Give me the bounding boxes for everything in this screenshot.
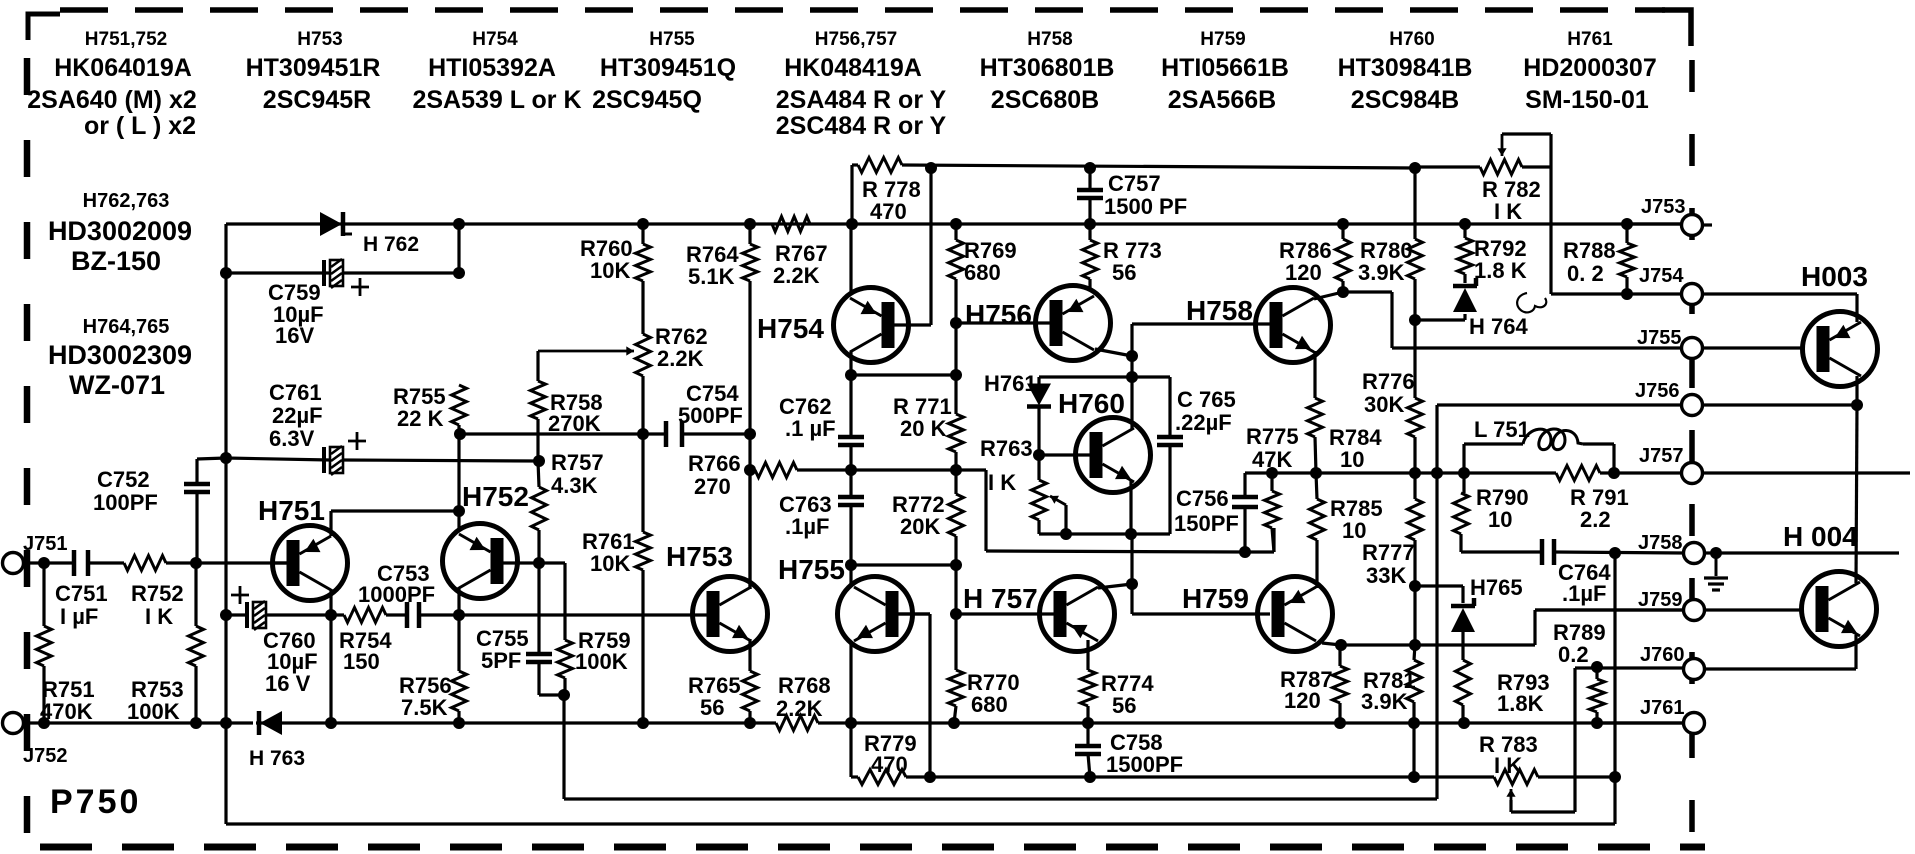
capacitor C751 1uF (72, 550, 77, 576)
transistor H760 (1076, 418, 1151, 493)
wire R758/R757 column (536, 419, 539, 461)
svg-text:H751: H751 (258, 495, 325, 526)
wire H751 emitter to H752 collector (y=511) (329, 511, 332, 536)
svg-text:20 K: 20 K (900, 416, 947, 441)
svg-text:H760: H760 (1389, 29, 1434, 50)
svg-text:R777: R777 (1362, 540, 1415, 565)
resistor R791 2.2 (1556, 466, 1600, 481)
svg-text:1.8K: 1.8K (1497, 691, 1544, 716)
svg-text:H 004: H 004 (1783, 521, 1858, 552)
svg-text:680: 680 (964, 260, 1001, 285)
wire R769 column (954, 224, 957, 240)
svg-text:HT306801B: HT306801B (980, 54, 1115, 82)
svg-text:HD3002009: HD3002009 (48, 216, 192, 246)
wire R751 column (42, 563, 45, 626)
wire H758 collector to J755 row (1343, 290, 1392, 293)
svg-text:H762,763: H762,763 (83, 190, 170, 212)
svg-text:2SA566B: 2SA566B (1168, 86, 1276, 114)
resistor R767 2.2K (772, 217, 810, 232)
capacitor C752 100PF (184, 482, 210, 487)
svg-text:I K: I K (1494, 199, 1522, 224)
svg-text:H752: H752 (462, 481, 529, 512)
svg-text:R788: R788 (1563, 238, 1616, 263)
resistor R777 33K (1408, 499, 1423, 540)
svg-text:J757: J757 (1639, 445, 1684, 467)
wire H765 branch from x=1415 (1415, 584, 1463, 587)
svg-text:150: 150 (343, 649, 380, 674)
svg-text:2SC945R: 2SC945R (263, 86, 371, 114)
svg-text:0. 2: 0. 2 (1567, 261, 1604, 286)
svg-text:5PF: 5PF (481, 648, 521, 673)
wire H758 collector to R786 bottom (1314, 292, 1343, 299)
resistor R793 1.8K (1456, 660, 1471, 705)
svg-text:H759: H759 (1182, 583, 1249, 614)
wire H753 collector/emitter column (748, 470, 751, 589)
resistor R768 2.2K (776, 716, 818, 731)
transistor H758 (1256, 288, 1331, 363)
svg-text:2.2K: 2.2K (776, 696, 823, 721)
wire H003 collector down / H004 collector up (x=1857) (1855, 376, 1858, 405)
svg-text:H753: H753 (666, 541, 733, 572)
svg-text:HT309841B: HT309841B (1338, 54, 1473, 82)
wire driver node down to y=552 row (984, 470, 987, 551)
svg-text:22 K: 22 K (397, 406, 444, 431)
svg-text:.1µF: .1µF (785, 514, 829, 539)
resistor R764 5.1K (743, 244, 758, 281)
wire J760 feedback to R783 wiper (1573, 668, 1576, 812)
resistor R773 56 (1083, 240, 1098, 279)
svg-text:H760: H760 (1058, 388, 1125, 419)
svg-text:2.2K: 2.2K (657, 346, 704, 371)
wire output return x=1615 (J758 to bottom) (1613, 553, 1616, 777)
svg-text:H 764: H 764 (1469, 314, 1528, 339)
svg-text:120: 120 (1284, 688, 1321, 713)
connector J751 (3, 553, 24, 574)
wire J756 row (1437, 403, 1683, 406)
zener diode H765 (1451, 604, 1475, 609)
svg-text:16V: 16V (275, 323, 314, 348)
wire C762/C763 column (849, 375, 852, 437)
wire R782 right vertical to J754 row (1549, 167, 1552, 294)
connector J753 (1682, 215, 1703, 236)
diode H763 (260, 711, 282, 735)
svg-text:.22µF: .22µF (1175, 410, 1232, 435)
resistor R759 100K (558, 640, 573, 678)
ground symbol at J758 (1715, 553, 1718, 576)
svg-text:100PF: 100PF (93, 490, 158, 515)
svg-text:7.5K: 7.5K (401, 695, 448, 720)
svg-text:H765: H765 (1470, 575, 1523, 600)
wire J756 row to H003 collector junction (1703, 403, 1857, 406)
wire C756 column (1243, 473, 1246, 497)
wire R759 jog and column (539, 561, 565, 564)
resistor R754 150 (344, 608, 386, 623)
wire feedback from C755/R759 bottom down and right (y=799) (562, 695, 565, 799)
capacitor C764 .1uF (1540, 539, 1545, 565)
wire R778 left lead vertical (850, 165, 853, 224)
wire H759 collector to J759 row (1322, 643, 1341, 645)
svg-text:H759: H759 (1200, 29, 1245, 50)
resistor R761 10K (636, 532, 651, 570)
wire R764 column (x=750) (748, 224, 751, 244)
wire R790 column (1462, 473, 1465, 493)
resistor R757 4.3K (532, 487, 547, 530)
wire H755 collector row to R772 bottom (851, 563, 956, 566)
board outline corner top-left (28, 14, 60, 40)
wire H754 collector to C762 and R771 junction row (849, 351, 852, 375)
svg-text:H755: H755 (778, 554, 845, 585)
svg-text:J761: J761 (1640, 697, 1685, 719)
diode H762 (320, 212, 342, 236)
wire H756 base lead (956, 321, 1052, 324)
svg-text:100K: 100K (575, 649, 628, 674)
capacitor C762 .1uF (838, 435, 864, 440)
resistor R790 10 (1454, 493, 1469, 534)
resistor R751 470K (37, 626, 52, 666)
connector J760 (1684, 659, 1705, 680)
svg-text:HT309451R: HT309451R (246, 54, 381, 82)
svg-text:I µF: I µF (60, 604, 98, 629)
wire H752 base lead (503, 561, 539, 564)
wire H765/R793 column (1461, 629, 1464, 660)
svg-text:56: 56 (1112, 693, 1136, 718)
wire R789 column (1595, 667, 1598, 679)
rheostat R783 1K (1494, 770, 1538, 785)
svg-text:10K: 10K (590, 258, 630, 283)
svg-text:H754: H754 (757, 313, 824, 344)
svg-text:2SC484 R or Y: 2SC484 R or Y (776, 112, 947, 140)
svg-text:120: 120 (1285, 260, 1322, 285)
svg-text:H753: H753 (297, 29, 342, 50)
wire H759 emitter through R785 to output node (1315, 540, 1318, 588)
svg-text:680: 680 (971, 692, 1008, 717)
svg-text:P750: P750 (50, 783, 141, 821)
resistor R758 270K (531, 381, 546, 419)
svg-text:HD2000307: HD2000307 (1523, 54, 1656, 82)
svg-text:H 762: H 762 (363, 233, 419, 256)
capacitor C761 22uF 6.3V (electrolytic) (322, 447, 326, 473)
transistor H757 (1040, 577, 1115, 652)
wire R792/H764 column (1463, 224, 1466, 238)
svg-text:10: 10 (1340, 447, 1364, 472)
wire H756 collector to x=1132 column (1095, 349, 1132, 356)
svg-text:2SC984B: 2SC984B (1351, 86, 1459, 114)
svg-text:H751,752: H751,752 (85, 29, 167, 50)
resistor R786 120 (1336, 239, 1351, 281)
svg-text:C756: C756 (1176, 486, 1229, 511)
svg-text:HK048419A: HK048419A (784, 54, 922, 82)
resistor R774 56 (1081, 670, 1096, 706)
capacitor C756 150PF (1232, 495, 1258, 500)
transistor H759 (1258, 577, 1333, 652)
svg-text:J751: J751 (23, 533, 68, 555)
svg-text:33K: 33K (1366, 563, 1406, 588)
svg-text:6.3V: 6.3V (269, 426, 315, 451)
connector J761 (1684, 713, 1705, 734)
wire R758 top bend to R762 wiper (536, 351, 539, 381)
svg-text:2SC945Q: 2SC945Q (592, 86, 702, 114)
wire J751 input row (22, 561, 74, 564)
resistor R765 56 (743, 671, 758, 711)
capacitor C760 10uF 16V (electrolytic) (245, 602, 249, 628)
wire R766 row y=470 (750, 468, 755, 471)
svg-text:C 765: C 765 (1177, 387, 1236, 412)
svg-text:2SA640 (M) x2: 2SA640 (M) x2 (27, 86, 197, 114)
diode H761 (1027, 384, 1051, 406)
wire C752 column (195, 459, 198, 484)
wire R753 column (194, 563, 197, 626)
wire supply rail 2 (226, 222, 1683, 225)
svg-text:C761: C761 (269, 380, 322, 405)
connector J756 (1682, 395, 1703, 416)
svg-text:J756: J756 (1635, 380, 1680, 402)
wire H760 emitter to y=534 row (1129, 481, 1132, 534)
board outline P750 dashed border top (60, 7, 1665, 13)
board outline P750 dashed border right (1689, 60, 1695, 842)
svg-text:H756: H756 (965, 299, 1032, 330)
node x459 column R755 bottom to H752 collector (457, 425, 460, 530)
svg-text:I K: I K (145, 604, 173, 629)
svg-text:2SC680B: 2SC680B (991, 86, 1099, 114)
wire H752 base to C755/R759 (537, 563, 540, 654)
svg-text:3.9K: 3.9K (1358, 260, 1405, 285)
svg-text:R775: R775 (1246, 424, 1299, 449)
resistor R772 20K (949, 494, 964, 536)
wire J759 to H004 base (1705, 608, 1801, 611)
svg-text:R768: R768 (778, 673, 831, 698)
svg-text:J752: J752 (23, 745, 68, 767)
wire R760/R762 column (641, 224, 644, 244)
board outline corner top-right (1662, 10, 1691, 46)
wire H761/R763 column (1037, 377, 1040, 384)
wire J760 row inside (1575, 666, 1683, 669)
svg-text:5.1K: 5.1K (688, 264, 735, 289)
wire J759 row inside (1535, 608, 1683, 611)
capacitor C753 1000PF (405, 602, 410, 628)
connector J752 (3, 713, 24, 734)
svg-text:H003: H003 (1801, 261, 1868, 292)
svg-text:500PF: 500PF (678, 403, 743, 428)
rheostat R782 1K (1480, 160, 1522, 175)
connector J755 (1682, 338, 1703, 359)
wire R763 wiper (1064, 505, 1067, 534)
svg-text:16 V: 16 V (265, 671, 311, 696)
wire H754 emitter column (849, 224, 852, 294)
wire H757 base lead (956, 612, 1056, 615)
wire top supply rail (R778 rail) (852, 163, 858, 166)
capacitor C754 500PF (664, 421, 669, 447)
wire J755 to H003 base (1703, 346, 1802, 349)
wire R755/R760 column top (457, 224, 460, 273)
resistor R769 680 (949, 240, 964, 279)
svg-text:0.2: 0.2 (1558, 642, 1589, 667)
connector J759 (1684, 600, 1705, 621)
svg-text:H758: H758 (1027, 29, 1072, 50)
wire R790 bottom to C764 to J758 (1461, 550, 1542, 553)
resistor R775 47K (1265, 491, 1280, 528)
svg-text:1500 PF: 1500 PF (1104, 194, 1187, 219)
transistor H756 (1036, 286, 1111, 361)
board outline P750 dashed border bottom (40, 844, 1705, 851)
svg-text:R752: R752 (131, 581, 184, 606)
wire rail1 to R782 (1415, 165, 1480, 168)
svg-text:L 751: L 751 (1474, 417, 1530, 442)
wire R788 column (1625, 224, 1628, 243)
resistor R753 100K (189, 626, 204, 666)
wire x=1132 column (H758 base / H760) (1130, 324, 1133, 356)
svg-text:22µF: 22µF (272, 403, 323, 428)
svg-text:I K: I K (988, 470, 1016, 495)
svg-text:470: 470 (870, 199, 907, 224)
svg-text:C751: C751 (55, 581, 108, 606)
wire H764 row y=320 (1415, 318, 1465, 321)
printing artifact squiggle (1517, 293, 1546, 312)
svg-text:H 763: H 763 (249, 747, 305, 770)
connector J757 (1682, 463, 1703, 484)
svg-text:J758: J758 (1638, 532, 1683, 554)
wire R787 column (1338, 645, 1341, 666)
wire J754 to H003 emitter (1703, 292, 1857, 295)
svg-text:HK064019A: HK064019A (54, 54, 192, 82)
wire C758 column (1086, 723, 1089, 746)
wire H756 emitter to R773 (1088, 279, 1091, 290)
wire L751 right lead down (1612, 444, 1615, 473)
wire C761 row (226, 458, 330, 460)
transistor H755 (838, 577, 913, 652)
transistor H004 (1802, 572, 1877, 647)
wire y=377 row H761 to C765 (1039, 375, 1170, 378)
svg-text:HTI05392A: HTI05392A (428, 54, 556, 82)
wire R780/R776/R777/R781 column x=1415 (1413, 168, 1416, 239)
svg-text:HD3002309: HD3002309 (48, 340, 192, 370)
svg-text:R757: R757 (551, 450, 604, 475)
wire H755 base to R779 right (897, 612, 930, 615)
svg-text:H756,757: H756,757 (815, 29, 897, 50)
junction dots (925, 162, 937, 174)
wire feedback column x=1437 (J756 net) (1435, 405, 1438, 799)
wire y=434 row (R762 junction to C754/R764) (460, 432, 666, 435)
wire R775 column (1270, 473, 1273, 491)
svg-text:J754: J754 (1639, 265, 1684, 287)
svg-text:10K: 10K (590, 551, 630, 576)
resistor R779 470 (858, 770, 906, 785)
svg-text:H755: H755 (649, 29, 695, 50)
wire H752 emitter down through R756 (457, 587, 460, 615)
zener diode H764 (1453, 284, 1477, 289)
svg-text:56: 56 (1112, 260, 1136, 285)
svg-text:C757: C757 (1108, 171, 1161, 196)
svg-text:HT309451Q: HT309451Q (600, 54, 736, 82)
svg-text:100K: 100K (127, 699, 180, 724)
svg-text:J759: J759 (1638, 589, 1683, 611)
transistor H752 (443, 524, 518, 599)
resistor R780 3.9K (1408, 239, 1423, 279)
capacitor C755 5PF (526, 652, 552, 657)
svg-text:HTI05661B: HTI05661B (1161, 54, 1289, 82)
wire J761 row (1597, 721, 1683, 724)
connector J754 (1682, 284, 1703, 305)
wire H757 collector to H759 base (1098, 584, 1132, 588)
wire L751 branch (1462, 444, 1465, 473)
wire C757 column (1088, 168, 1091, 190)
resistor R792 1.8K (1458, 238, 1473, 274)
resistor R766 270 (755, 463, 797, 478)
svg-text:R766: R766 (688, 451, 741, 476)
resistor R770 680 (949, 670, 964, 706)
capacitor C759 10uF 16V (electrolytic) (322, 260, 326, 286)
resistor R756 7.5K (452, 671, 467, 711)
svg-text:.1 µF: .1 µF (785, 416, 836, 441)
wire y=777 row R779/C758/R783 (851, 775, 858, 778)
resistor R781 3.9K (1407, 660, 1422, 702)
wire J754 row (1551, 292, 1683, 295)
wire J758 row to edge with ground (1705, 551, 1899, 554)
wire ground rail right of R768 (818, 721, 1683, 724)
wire C759 row (226, 271, 459, 274)
capacitor C757 1500PF (1077, 188, 1103, 193)
svg-text:4.3K: 4.3K (551, 473, 598, 498)
resistor R785 10 (1310, 499, 1325, 540)
svg-text:1.8 K: 1.8 K (1474, 258, 1527, 283)
wire H758 base row (1132, 322, 1270, 325)
svg-text:10: 10 (1488, 507, 1512, 532)
wire H757 emitter through R774 (1086, 640, 1089, 670)
capacitor C763 .1uF (838, 495, 864, 500)
variable resistor R763 1K (1032, 480, 1047, 520)
svg-text:H 757: H 757 (963, 583, 1038, 614)
wire H754 base vertical from top rail (929, 168, 932, 325)
svg-text:R763: R763 (980, 436, 1033, 461)
svg-text:.1µF: .1µF (1562, 581, 1606, 606)
wire H751 collector down to rail (329, 589, 332, 615)
resistor R787 120 (1333, 666, 1348, 703)
svg-text:H764,765: H764,765 (83, 316, 170, 338)
wire y=615 row C760/R754/C753 to H753 base (226, 613, 249, 616)
svg-text:2SA484 R or Y: 2SA484 R or Y (776, 86, 947, 114)
svg-text:30K: 30K (1364, 392, 1404, 417)
svg-text:I K: I K (1494, 753, 1522, 778)
svg-text:C752: C752 (97, 467, 150, 492)
svg-text:56: 56 (700, 695, 724, 720)
wire J753 row stub to connector (1627, 222, 1683, 225)
svg-text:H761: H761 (1567, 29, 1613, 50)
svg-text:R776: R776 (1362, 369, 1415, 394)
svg-text:H761: H761 (984, 371, 1037, 396)
svg-text:20K: 20K (900, 514, 940, 539)
wire H755 collector/emitter column (849, 565, 852, 584)
svg-text:BZ-150: BZ-150 (71, 246, 161, 276)
svg-text:or ( L ) x2: or ( L ) x2 (84, 112, 196, 140)
board outline P750 dashed border left (24, 58, 31, 838)
transistor H754 (834, 288, 909, 363)
svg-text:J760: J760 (1640, 644, 1685, 666)
resistor R755 22K (452, 385, 467, 425)
capacitor C758 1500PF (1075, 744, 1101, 749)
svg-text:1500PF: 1500PF (1106, 752, 1183, 777)
wire H004 emitter to J760 row (1854, 635, 1857, 669)
svg-text:WZ-071: WZ-071 (69, 370, 165, 400)
svg-text:270: 270 (694, 474, 731, 499)
inductor L751 (1523, 429, 1583, 450)
svg-text:150PF: 150PF (1174, 511, 1239, 536)
svg-text:H754: H754 (472, 29, 518, 50)
svg-text:H758: H758 (1186, 295, 1253, 326)
svg-text:2SA539 L or K: 2SA539 L or K (412, 86, 581, 114)
resistor R788 0.2 (1620, 243, 1635, 277)
wire C765 column (1168, 377, 1171, 437)
svg-text:270K: 270K (548, 411, 601, 436)
resistor R784 10 (1308, 398, 1323, 437)
